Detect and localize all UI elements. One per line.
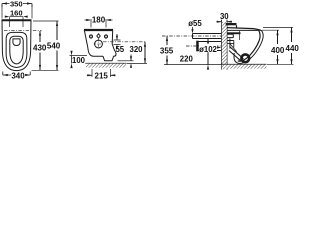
inlet stub at wall: [227, 34, 233, 37]
180 extension lines to holes: [91, 21, 106, 28]
dim 400 arrows: [276, 30, 278, 64]
svg-text:215: 215: [95, 71, 109, 80]
floor line middle: [86, 62, 127, 64]
floor extension line between figures: [127, 62, 147, 64]
outlet pipe dia102: [197, 42, 222, 51]
dim 340 text: [11, 72, 25, 80]
dim 160 line: [10, 16, 24, 18]
dia 102 leader arrow to wall: [217, 47, 219, 49]
inlet pipe dia55: [193, 34, 222, 39]
dim 215 end ticks: [92, 69, 111, 77]
svg-text:340: 340: [11, 71, 25, 80]
dim 430 line: [39, 31, 41, 70]
spigot leader diag: [230, 44, 236, 52]
dim 340 line with hooks: [3, 72, 30, 76]
plan bowl inner ring: [10, 36, 23, 64]
center slot diamond: [97, 34, 100, 38]
dim 215 text: [94, 72, 108, 80]
dim 355 text: [160, 46, 174, 54]
bowl front inner profile: [238, 31, 260, 62]
floor line right: [222, 63, 267, 65]
dim 350 arrows: [2, 2, 32, 4]
dim 215 arrows outside: [87, 74, 115, 76]
dia 55 leader arrow: [192, 27, 194, 30]
dim 100 arrows outside: [70, 51, 72, 68]
dim 440 arrows: [290, 28, 292, 65]
dim 430 arrows: [39, 31, 41, 70]
dim 320 arrows: [144, 42, 146, 64]
bowl front outer profile: [234, 31, 263, 64]
dim 215 line: [87, 74, 116, 76]
seat cover hinge cap: [226, 23, 237, 25]
rear body top edge thick: [84, 29, 113, 31]
dim 400 line: [277, 30, 279, 64]
bowl underside slope lines: [229, 47, 244, 61]
fixing hole left: [90, 35, 93, 38]
dim 55 line and arrows: [116, 34, 118, 40]
outlet centerline dash-dot: [186, 45, 221, 47]
svg-text:320: 320: [129, 45, 143, 54]
plan body outline: [2, 20, 31, 71]
outlet centerline dash-dot to right: [103, 41, 145, 43]
plan trap cup: [13, 39, 20, 46]
plan seat outer ring: [6, 32, 27, 67]
gap dim arrows at 131: [130, 55, 132, 61]
dim 160 arrows outside: [5, 16, 28, 18]
dim 340 arrows: [3, 74, 30, 76]
dim 100 extension top: [70, 55, 88, 57]
svg-text:180: 180: [92, 15, 106, 24]
seat top extension line: [263, 27, 293, 29]
seat hinge bracket bar: [227, 32, 241, 34]
outlet spigot: [227, 38, 234, 48]
svg-text:430: 430: [33, 43, 47, 52]
dim 30 arrows outside: [217, 21, 233, 23]
dia 102 text: [199, 44, 217, 52]
dim 30 text: [219, 12, 231, 19]
dim 540 arrows: [56, 21, 58, 70]
dim 100 line: [71, 56, 73, 64]
svg-text:220: 220: [180, 54, 194, 63]
dim 320 line: [144, 42, 146, 64]
dim 540 line: [56, 21, 58, 70]
svg-text:ø55: ø55: [188, 19, 202, 28]
dim 180 line: [85, 19, 113, 21]
rim extension line: [262, 29, 279, 31]
bottom extension for 430/540: [32, 69, 59, 71]
dim 440 line: [291, 28, 293, 65]
wall hatch: [222, 22, 227, 69]
dim 220 arrows: [207, 41, 209, 69]
svg-text:440: 440: [286, 44, 300, 53]
top extension for 540: [33, 20, 59, 22]
bowl back inner vertical: [239, 31, 241, 40]
dim 400 text: [271, 45, 285, 54]
dim 55 extensions: [114, 40, 121, 45]
svg-text:355: 355: [160, 46, 174, 55]
svg-text:350: 350: [10, 0, 23, 8]
svg-text:ø102: ø102: [199, 45, 217, 54]
foot bottom extension line: [118, 60, 134, 62]
dim 355 line: [166, 36, 168, 65]
dim 180 text: [92, 16, 105, 23]
svg-text:30: 30: [220, 12, 229, 21]
outlet cross centerlines: [94, 39, 104, 49]
wall section: [222, 19, 228, 70]
inlet centerline dash-dot: [162, 35, 222, 37]
dim 220 line: [207, 38, 209, 65]
dim 180 arrows: [86, 19, 110, 21]
svg-text:400: 400: [271, 46, 285, 55]
svg-text:100: 100: [72, 56, 86, 65]
rear body outline: [84, 30, 103, 56]
trap elbow ring: [241, 54, 249, 62]
fixing hole right: [105, 35, 108, 38]
hinge centerline dash-dot: [4, 29, 42, 31]
seat top line: [227, 25, 262, 31]
extension from 350 to body corners: [2, 5, 32, 19]
dim 430 text: [34, 43, 47, 51]
svg-text:160: 160: [10, 8, 23, 17]
floor hatch right: [222, 65, 267, 69]
dim 355 arrows: [166, 36, 168, 65]
svg-text:55: 55: [115, 45, 124, 54]
floor extension to dims: [267, 63, 294, 65]
dim 160 text: [10, 9, 23, 16]
dim 440 text: [285, 43, 299, 52]
dim 160 extension lines: [10, 17, 24, 27]
outlet circle: [95, 40, 103, 48]
plan body top edge thick: [2, 19, 32, 21]
rim top line: [227, 29, 259, 31]
floor level extension line: [164, 64, 222, 66]
floor hatch middle: [86, 64, 126, 68]
dim 540 text: [47, 41, 61, 49]
dim 350 line: [2, 4, 32, 8]
svg-text:540: 540: [47, 41, 61, 50]
dim 350 text: [10, 0, 24, 7]
